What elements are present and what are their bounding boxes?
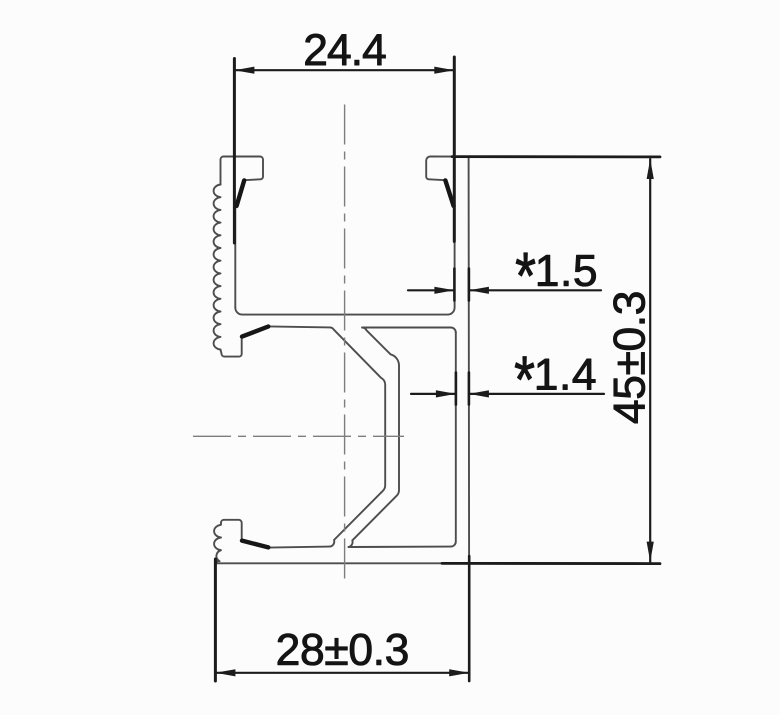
dimension text *1.5 [516, 253, 596, 286]
lip wedge on bottom-left hook [242, 541, 268, 548]
wall thickness 1.5 leader right with arrow [469, 289, 601, 291]
arrowhead 45 top [647, 159, 654, 179]
lip wedge on middle-left foot [242, 327, 268, 337]
dimension text 45±0.3 rotated [613, 293, 645, 424]
dimension 28 extension line right [468, 556, 471, 681]
channel floor bottom surface right part [363, 328, 456, 333]
arrowhead 45 bottom [647, 542, 654, 562]
right wall outer surface [468, 157, 471, 568]
serrated left edge upper section [214, 185, 221, 350]
lip wedge on top-right hook [445, 180, 453, 206]
arrowhead 28 right [449, 669, 469, 676]
wall thickness 1.5 tick right [468, 269, 471, 301]
wall thickness 1.5 leader left with arrow [408, 289, 454, 291]
bottom member bottom surface [216, 562, 474, 564]
dimension 28 extension line left [214, 559, 217, 681]
horizontal centerline [193, 435, 404, 437]
bottom member top surface left segment [269, 547, 330, 548]
dimension text 24.4 [305, 34, 385, 65]
left wall inner surface line [234, 208, 236, 308]
dimension text 28±0.3 [278, 634, 408, 666]
dimension 24.4 extension line left [233, 59, 236, 244]
dimension 45 extension line top [452, 155, 660, 158]
right wall inner surface below floor [451, 333, 456, 547]
vertical centerline [344, 105, 346, 584]
dimension 28 line [215, 672, 469, 674]
channel floor top surface [235, 208, 454, 315]
central web outer (left) face [330, 327, 386, 546]
lip wedge on top-left hook [237, 180, 245, 206]
profile top-right hook outline [426, 157, 468, 207]
dimension 45 extension line bottom [442, 562, 660, 565]
arrowhead 24.4 right [434, 67, 454, 74]
dimension 24.4 extension line right [453, 57, 456, 242]
bottom member top surface right segment [349, 546, 451, 548]
arrowhead 28 left [215, 669, 235, 676]
wall thickness 1.4 leader left with arrow [411, 393, 456, 395]
bottom-left hook outline [214, 520, 242, 564]
arrowhead 24.4 left [234, 67, 254, 74]
dimension 24.4 line [234, 69, 454, 71]
profile top-left hook outline [221, 157, 264, 207]
wall thickness 1.5 tick left [453, 269, 456, 301]
central web inner (right) face [349, 328, 400, 548]
middle-left foot outline [221, 339, 242, 357]
wall thickness 1.4 tick right [468, 373, 471, 405]
dimension 45 line [649, 159, 651, 562]
wall thickness 1.4 leader right with arrow [469, 393, 604, 395]
wall thickness 1.4 tick left [455, 373, 458, 405]
channel floor bottom surface left part [269, 326, 331, 327]
dimension text *1.4 [515, 357, 595, 390]
